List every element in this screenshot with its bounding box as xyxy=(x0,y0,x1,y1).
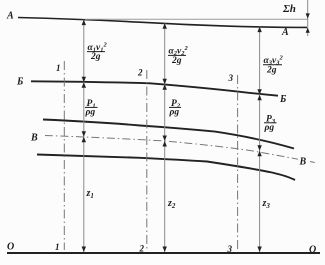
dimension line section 1 xyxy=(83,20,85,252)
dimension line section 2 xyxy=(164,23,166,252)
svg-text:2g: 2g xyxy=(266,65,277,75)
dimension line section 3 xyxy=(259,27,261,252)
sum h dimension line xyxy=(307,0,309,36)
arrows section 3 xyxy=(257,27,261,32)
svg-text:2g: 2g xyxy=(171,56,182,66)
pressure head fraction 3 xyxy=(264,114,277,133)
svg-text:В: В xyxy=(30,133,38,144)
initial head horizontal line xyxy=(85,18,308,20)
svg-text:O: O xyxy=(7,242,14,253)
svg-text:2g: 2g xyxy=(90,52,101,62)
svg-text:ρg: ρg xyxy=(85,108,96,118)
white gap for right В label xyxy=(298,156,310,166)
svg-text:3: 3 xyxy=(228,73,234,83)
pressure head fraction 2 xyxy=(169,99,182,118)
svg-text:2: 2 xyxy=(139,244,145,254)
sum h upper arrow xyxy=(306,13,310,18)
arrows section 1 xyxy=(82,20,86,26)
pipe axis dash-dot line B(В)-B(В) xyxy=(45,136,317,164)
pipe bottom wall xyxy=(37,155,295,181)
velocity head fraction 2 xyxy=(168,45,188,66)
svg-text:ρg: ρg xyxy=(169,108,180,118)
section line 2 (dash-dot) xyxy=(146,70,148,250)
svg-text:2: 2 xyxy=(137,68,143,78)
pressure head fraction 1 xyxy=(85,99,98,118)
svg-text:ρg: ρg xyxy=(264,123,275,133)
section line 3 (dash-dot) xyxy=(237,75,239,250)
velocity head fraction 3 xyxy=(263,55,283,76)
arrows section 2 xyxy=(163,23,167,29)
velocity head fraction 1 xyxy=(87,42,107,63)
energy line A-A xyxy=(18,18,307,28)
svg-text:Σh: Σh xyxy=(282,3,296,15)
svg-text:3: 3 xyxy=(227,244,233,254)
piezometric line B(Б)-B(Б) xyxy=(31,81,278,95)
datum line O-O xyxy=(7,252,320,254)
svg-text:A: A xyxy=(6,11,14,22)
svg-text:Б: Б xyxy=(16,77,24,88)
svg-text:A: A xyxy=(281,27,289,38)
svg-text:O: O xyxy=(309,245,316,256)
svg-text:Б: Б xyxy=(279,94,287,105)
pipe top wall xyxy=(43,120,294,149)
sum h lower arrow xyxy=(306,28,310,33)
section line 1 (dash-dot) xyxy=(63,61,65,250)
svg-text:1: 1 xyxy=(55,242,60,252)
svg-text:В: В xyxy=(299,157,307,168)
svg-text:1: 1 xyxy=(56,63,61,73)
